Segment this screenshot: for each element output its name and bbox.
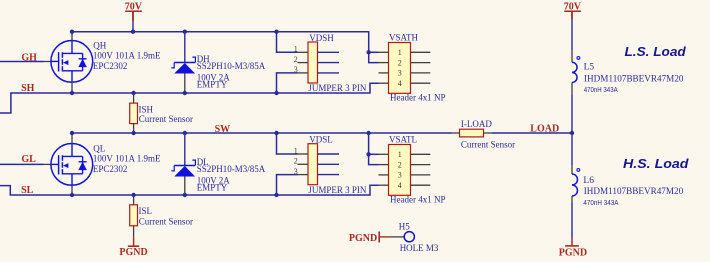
svg-text:VDSL: VDSL [309, 135, 333, 145]
svg-text:PGND: PGND [559, 247, 587, 257]
svg-text:4: 4 [398, 181, 402, 190]
svg-text:QL: QL [93, 144, 105, 154]
svg-text:SS2PH10-M3/85A: SS2PH10-M3/85A [197, 164, 266, 174]
svg-text:PGND: PGND [349, 233, 377, 244]
svg-text:H.S. Load: H.S. Load [623, 157, 689, 171]
svg-text:1: 1 [294, 146, 298, 155]
svg-text:70V: 70V [125, 2, 143, 13]
svg-text:3: 3 [398, 69, 402, 78]
svg-text:2: 2 [398, 160, 402, 169]
svg-text:PGND: PGND [119, 247, 147, 257]
svg-text:L5: L5 [584, 63, 595, 73]
svg-text:Current Sensor: Current Sensor [461, 139, 515, 149]
svg-text:I-LOAD: I-LOAD [461, 119, 492, 129]
svg-text:1: 1 [294, 45, 298, 54]
svg-text:SL: SL [21, 185, 34, 196]
svg-text:2: 2 [398, 58, 402, 67]
svg-text:GL: GL [21, 154, 36, 165]
svg-text:ISL: ISL [139, 206, 153, 216]
svg-text:2: 2 [294, 157, 298, 166]
svg-text:VDSH: VDSH [309, 33, 334, 43]
svg-text:L6: L6 [583, 176, 594, 186]
svg-text:VSATL: VSATL [389, 135, 417, 145]
svg-text:JUMPER 3 PIN: JUMPER 3 PIN [308, 83, 367, 93]
svg-text:IHDM1107BBEVR47M20: IHDM1107BBEVR47M20 [584, 187, 684, 197]
svg-text:Header 4x1 NP: Header 4x1 NP [390, 93, 446, 103]
svg-text:70V: 70V [564, 2, 582, 13]
svg-text:SH: SH [21, 83, 35, 94]
svg-text:3: 3 [398, 171, 402, 180]
svg-text:Header 4x1 NP: Header 4x1 NP [390, 195, 446, 205]
svg-text:470nH 343A: 470nH 343A [583, 198, 618, 207]
svg-text:VSATH: VSATH [389, 33, 419, 43]
svg-text:Current Sensor: Current Sensor [139, 114, 193, 124]
svg-text:HOLE M3: HOLE M3 [400, 243, 439, 253]
svg-text:3: 3 [294, 65, 298, 74]
svg-text:100V 101A 1.9mE: 100V 101A 1.9mE [93, 50, 161, 60]
svg-text:QH: QH [93, 41, 106, 51]
svg-text:H5: H5 [399, 221, 410, 231]
svg-text:IHDM1107BBEVR47M20: IHDM1107BBEVR47M20 [584, 74, 684, 84]
svg-text:2: 2 [294, 55, 298, 64]
svg-text:SW: SW [215, 124, 231, 135]
svg-text:EMPTY: EMPTY [197, 80, 228, 90]
svg-text:JUMPER 3 PIN: JUMPER 3 PIN [308, 185, 367, 195]
svg-text:100V 101A 1.9mE: 100V 101A 1.9mE [93, 153, 161, 163]
svg-text:L.S. Load: L.S. Load [625, 45, 687, 59]
svg-text:GH: GH [21, 52, 37, 63]
svg-text:3: 3 [294, 167, 298, 176]
svg-text:EPC2302: EPC2302 [93, 164, 128, 174]
svg-text:1: 1 [398, 150, 402, 159]
svg-text:Current Sensor: Current Sensor [139, 216, 193, 226]
svg-text:SS2PH10-M3/85A: SS2PH10-M3/85A [197, 61, 266, 71]
svg-text:1: 1 [398, 48, 402, 57]
svg-text:LOAD: LOAD [530, 124, 559, 135]
svg-text:EPC2302: EPC2302 [93, 61, 128, 71]
svg-text:470nH 343A: 470nH 343A [584, 85, 618, 94]
svg-text:EMPTY: EMPTY [197, 183, 228, 193]
svg-text:4: 4 [398, 79, 402, 88]
